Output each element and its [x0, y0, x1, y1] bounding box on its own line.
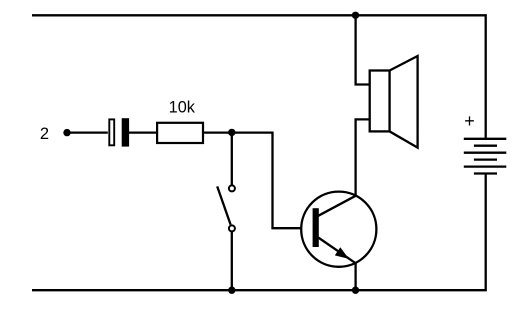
battery BT1 long plate 2 — [464, 152, 507, 154]
wire node A down to switch — [231, 133, 233, 186]
svg-text:10k: 10k — [169, 99, 196, 117]
capacitor C1 left plate (open) — [109, 119, 114, 145]
switch S1 lever — [217, 186, 230, 224]
svg-text:2: 2 — [40, 125, 49, 143]
node bottom-middle junction dot — [352, 287, 359, 294]
wire resistor to node A — [204, 131, 232, 133]
speaker LS1 cone — [390, 56, 418, 148]
switch S1 lower contact — [229, 225, 235, 231]
resistor R1 body — [157, 123, 203, 143]
battery BT1 short plate 1 — [474, 145, 497, 147]
wire emitter to bottom rail — [354, 263, 356, 290]
battery BT1 short plate 2 — [474, 158, 497, 160]
wire node A to transistor base — [232, 133, 313, 229]
transistor Q1 emitter stroke — [318, 237, 356, 263]
node 2 terminal dot — [63, 129, 70, 136]
node A junction dot — [228, 129, 235, 136]
wire top rail and right drop to battery + — [32, 15, 486, 139]
wire switch to bottom rail — [231, 232, 233, 290]
wire input terminal to capacitor — [67, 131, 108, 133]
transistor Q1 base bar — [313, 208, 319, 247]
switch S1 upper contact — [229, 185, 235, 191]
battery BT1 long plate 1 — [464, 138, 507, 140]
transistor Q1 collector stroke — [318, 196, 356, 216]
wire top rail to speaker upper terminal — [356, 15, 370, 84]
wire capacitor to resistor — [129, 131, 157, 133]
capacitor C1 right plate (filled) — [122, 118, 129, 146]
wire collector to speaker lower terminal — [356, 119, 370, 196]
wire bottom rail and right rise to battery - — [32, 174, 486, 291]
svg-text:+: + — [464, 111, 475, 131]
node bottom-left junction dot — [228, 287, 235, 294]
transistor Q1 envelope circle — [301, 192, 376, 267]
node top rail junction dot — [352, 12, 359, 19]
speaker LS1 body rectangle — [370, 71, 390, 132]
battery BT1 short plate 3 — [474, 172, 497, 174]
transistor Q1 emitter arrowhead — [335, 247, 349, 259]
battery BT1 long plate 3 — [464, 165, 507, 167]
